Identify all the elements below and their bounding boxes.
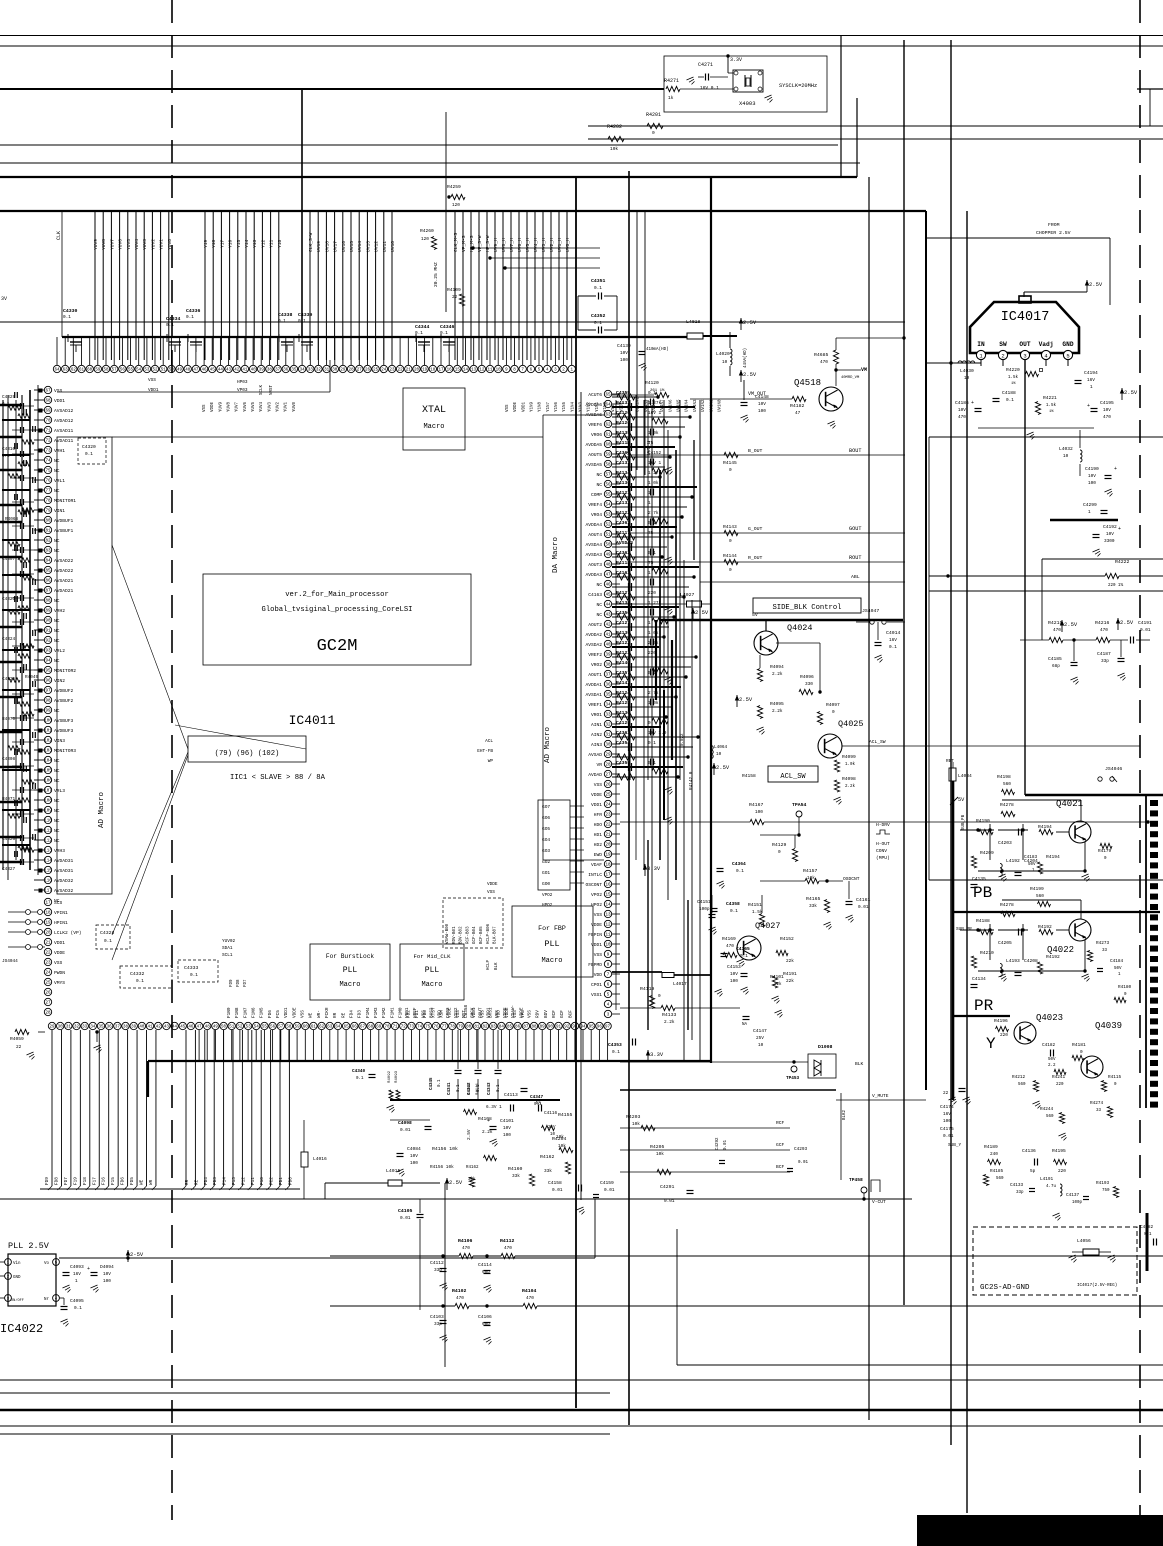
svg-text:2.5V: 2.5V [1124,389,1138,396]
bottom frame line 3 thick [0,1409,1163,1411]
svg-text:Y1N5: Y1N5 [563,401,567,412]
svg-text:VDD1: VDD1 [284,1007,289,1018]
svg-text:WE: WE [140,1179,145,1185]
svg-text:VSS: VSS [301,1010,306,1018]
IC IC4011 left pin column lower [44,898,51,905]
svg-text:FD1: FD1 [279,1177,284,1185]
svg-text:VSS: VSS [203,404,207,412]
svg-text:Y10: Y10 [277,239,283,248]
svg-text:R4181: R4181 [1072,1042,1086,1048]
svg-text:56: 56 [605,484,611,488]
svg-text:BDV: BDV [544,1010,549,1018]
svg-text:R4126: R4126 [616,420,630,426]
dashed vertical margin line right [1139,0,1141,1515]
dashed box C4320 [78,438,106,464]
svg-text:VIN3: VIN3 [54,738,65,744]
bottom filter wires [330,1255,459,1257]
svg-text:C4161: C4161 [856,897,871,903]
svg-text:18: 18 [430,369,436,373]
svg-text:1.0k: 1.0k [845,762,856,767]
svg-text:RCF: RCF [552,1010,557,1018]
svg-text:0.1: 0.1 [63,315,71,320]
svg-text:40: 40 [251,369,257,373]
svg-text:AVDAD: AVDAD [588,772,602,778]
svg-text:25: 25 [605,794,611,798]
svg-text:HREF: HREF [413,1007,418,1018]
svg-text:C4292: C4292 [716,1137,720,1150]
svg-text:YUV4: YUV4 [134,239,140,250]
svg-text:C4363: C4363 [616,730,630,736]
DA strip vertical rails [615,400,617,1010]
svg-text:0: 0 [729,468,732,473]
svg-text:VDD1: VDD1 [405,1007,410,1018]
svg-text:C4293: C4293 [794,1147,808,1152]
svg-text:25: 25 [45,982,51,986]
svg-text:Y1N9: Y1N9 [531,401,535,412]
left column extra thick bars [0,404,22,406]
wire vertical x841 [840,36,842,178]
svg-text:81: 81 [45,530,51,534]
svg-text:48: 48 [205,1026,211,1030]
svg-text:R4271: R4271 [664,78,679,84]
svg-text:NC: NC [596,602,602,608]
svg-text:88: 88 [532,1026,538,1030]
svg-text:C4153: C4153 [727,964,741,970]
svg-text:43: 43 [164,1026,170,1030]
svg-text:C4116: C4116 [544,1111,558,1116]
svg-text:BCF-B05: BCF-B05 [480,926,484,944]
svg-text:FD8: FD8 [54,1177,59,1185]
svg-text:10: 10 [605,944,611,948]
svg-text:R4137: R4137 [616,400,630,406]
svg-text:73: 73 [45,450,51,454]
svg-text:C4134: C4134 [972,976,986,982]
svg-text:RCF: RCF [776,1120,785,1126]
svg-text:UV11: UV11 [382,241,388,252]
svg-text:Macro: Macro [421,981,442,989]
svg-text:YUV3: YUV3 [268,401,272,412]
svg-text:81: 81 [474,1026,480,1030]
svg-text:42: 42 [156,1026,162,1030]
svg-text:B_OUT: B_OUT [748,448,763,454]
svg-text:44: 44 [218,369,224,373]
svg-text:102: 102 [44,740,52,744]
svg-text:470: 470 [1103,415,1111,420]
svg-text:UV3_H: UV3_H [541,238,547,252]
svg-text:PLL: PLL [343,966,358,975]
svg-text:VDD1: VDD1 [54,398,65,404]
svg-text:2.7k: 2.7k [648,691,659,696]
svg-text:VRH1: VRH1 [54,448,65,454]
regulator IC4022 box [8,1254,56,1306]
svg-text:VDD1: VDD1 [487,1007,492,1018]
svg-text:0.1: 0.1 [889,645,897,650]
svg-text:3.3V: 3.3V [650,1051,664,1058]
svg-text:62: 62 [605,424,611,428]
svg-text:C4093: C4093 [70,1264,84,1270]
svg-text:YUV6: YUV6 [118,239,124,250]
svg-text:25: 25 [373,369,379,373]
svg-text:HP03: HP03 [237,380,248,385]
svg-text:49: 49 [177,369,183,373]
svg-text:R4193: R4193 [1096,1181,1110,1186]
svg-text:NC: NC [596,582,602,588]
bottom fan group1 wires FD9..WR [51,1030,53,1186]
thick rail under caps [390,1099,560,1101]
svg-text:VDD1: VDD1 [591,802,602,808]
svg-text:22: 22 [605,824,611,828]
svg-text:0: 0 [658,994,661,999]
svg-text:F13: F13 [232,1177,237,1185]
svg-text:AOUT5: AOUT5 [588,452,602,458]
svg-text:10V: 10V [103,1272,111,1277]
svg-text:R4158: R4158 [742,773,756,779]
wire horizontal bus y163 [0,162,860,164]
svg-text:470: 470 [462,1246,470,1251]
top fan CLK_M-S..UV2_H [454,211,456,360]
svg-text:59: 59 [605,454,611,458]
svg-text:R4241: R4241 [1052,1075,1066,1080]
svg-text:14: 14 [463,369,469,373]
svg-text:10k: 10k [656,1152,664,1157]
svg-text:Q4023: Q4023 [1036,1013,1063,1023]
svg-text:100: 100 [503,1133,511,1138]
PLL output wire [59,1257,595,1259]
svg-text:VSS: VSS [528,1010,533,1018]
svg-text:FD7: FD7 [244,979,248,987]
svg-text:Y19: Y19 [203,239,209,248]
svg-text:R4101: R4101 [468,1082,472,1095]
svg-text:Global_tvsiginal_processing_Co: Global_tvsiginal_processing_CoreLSI [262,606,413,614]
svg-text:VDD1: VDD1 [148,388,159,393]
svg-text:R4118: R4118 [616,560,630,566]
svg-text:37: 37 [605,674,611,678]
svg-text:10: 10 [1063,454,1069,459]
svg-text:45: 45 [605,594,611,598]
svg-text:FROM: FROM [1048,222,1060,228]
wire vertical x904 [903,40,905,1305]
svg-text:Y: Y [986,1035,996,1053]
svg-text:R4121: R4121 [616,490,630,496]
svg-text:CLK1N2: CLK1N2 [637,396,641,412]
svg-text:RDV-B01: RDV-B01 [453,926,457,944]
svg-text:INTLC: INTLC [588,872,602,878]
svg-text:34: 34 [605,704,611,708]
svg-text:R4156 10k: R4156 10k [430,1165,454,1170]
svg-text:Y1N4: Y1N4 [571,401,575,412]
svg-text:AVSDA5: AVSDA5 [585,462,602,468]
svg-text:41: 41 [148,1026,154,1030]
svg-text:ACL: ACL [485,739,493,744]
svg-text:2.2: 2.2 [1048,1064,1056,1068]
svg-text:C4195: C4195 [1100,400,1114,406]
svg-text:3.3V: 3.3V [647,865,661,872]
bottom frame line 4 [0,1425,1163,1427]
svg-text:C4151: C4151 [697,899,711,905]
svg-text:41: 41 [605,634,611,638]
svg-text:0.01: 0.01 [1140,628,1151,633]
svg-text:38: 38 [605,664,611,668]
svg-text:UV6_H: UV6_H [517,238,523,252]
svg-text:112: 112 [44,840,52,844]
svg-text:C4101: C4101 [500,1118,514,1124]
svg-text:77: 77 [45,490,51,494]
svg-text:YUV5: YUV5 [252,401,256,412]
svg-text:R4122: R4122 [616,640,630,646]
svg-text:42: 42 [234,369,240,373]
svg-text:VREF2: VREF2 [588,652,602,658]
svg-text:22: 22 [943,1091,949,1096]
svg-text:UV2_H: UV2_H [549,238,555,252]
svg-text:FBPIN: FBPIN [588,932,602,938]
svg-text:FBPMD: FBPMD [588,962,602,968]
svg-text:41: 41 [242,369,248,373]
left column extra caps [14,392,16,398]
svg-text:UV5_H: UV5_H [525,238,531,252]
svg-text:TP458: TP458 [849,1177,863,1183]
svg-text:25V: 25V [548,1126,556,1130]
svg-text:HFR: HFR [594,812,603,818]
svg-text:YUV8: YUV8 [101,239,107,250]
svg-text:UV1N6: UV1N6 [669,399,673,412]
svg-text:R4130: R4130 [616,710,630,716]
svg-text:91: 91 [556,1026,562,1030]
svg-text:HCLP-B06: HCLP-B06 [487,923,491,944]
svg-text:Y17: Y17 [219,239,225,248]
AD Macro box left [57,437,112,894]
svg-text:66: 66 [352,1026,358,1030]
svg-text:L4015: L4015 [386,1168,401,1174]
svg-text:R4120: R4120 [645,380,659,386]
svg-text:33: 33 [605,714,611,718]
svg-text:86: 86 [515,1026,521,1030]
svg-text:15: 15 [605,894,611,898]
wires joining DA rows [629,400,631,780]
svg-text:67: 67 [45,390,51,394]
wire vertical x857 [856,98,858,177]
svg-text:70: 70 [45,420,51,424]
svg-text:AVDDA3: AVDDA3 [585,572,602,578]
svg-text:VSS: VSS [495,1010,500,1018]
svg-text:1.27k: 1.27k [648,401,662,406]
svg-text:GOUT: GOUT [849,526,861,532]
GC2M version box [203,574,471,665]
svg-text:21: 21 [406,369,412,373]
svg-text:CLK: CLK [56,231,62,240]
svg-text:48: 48 [185,369,191,373]
svg-text:YUV9: YUV9 [93,239,99,250]
svg-text:JS4046: JS4046 [1105,766,1122,772]
IC4011 inner top label row [57,391,330,393]
svg-text:R4278: R4278 [1000,902,1014,908]
svg-text:GCF: GCF [560,1010,565,1018]
svg-text:C4139: C4139 [617,343,631,349]
svg-text:20: 20 [605,844,611,848]
svg-text:0: 0 [729,568,732,573]
BOUT line [630,454,905,456]
svg-text:C4320: C4320 [82,444,96,450]
svg-text:SCS: SCS [54,900,63,906]
svg-text:35: 35 [99,1026,105,1030]
top fan CLK_S-W UV19-UV10 [309,211,311,360]
svg-text:24: 24 [381,369,387,373]
svg-text:F1M3: F1M3 [374,1007,379,1018]
svg-text:59: 59 [95,369,101,373]
svg-text:73: 73 [409,1026,415,1030]
svg-text:R4259: R4259 [447,184,461,190]
svg-text:2.5V: 2.5V [743,319,757,326]
svg-text:78: 78 [45,500,51,504]
svg-text:87: 87 [45,590,51,594]
svg-text:470: 470 [726,944,734,949]
svg-text:99: 99 [45,710,51,714]
svg-text:2.5V: 2.5V [716,764,730,771]
svg-text:16: 16 [447,369,453,373]
svg-text:SUB_PR: SUB_PR [956,927,972,932]
left column pads [39,389,43,393]
svg-text:Q4027: Q4027 [755,921,781,931]
svg-text:R4199: R4199 [1030,886,1044,892]
svg-text:90: 90 [548,1026,554,1030]
svg-text:85: 85 [45,570,51,574]
svg-text:410mA(HD): 410mA(HD) [646,347,669,352]
svg-text:13: 13 [605,914,611,918]
svg-text:UV1N0: UV1N0 [718,399,722,412]
svg-text:R4145: R4145 [723,460,737,466]
svg-text:Y1N0: Y1N0 [604,401,608,412]
svg-text:X4003: X4003 [739,100,756,107]
svg-text:UV14: UV14 [357,241,363,252]
svg-text:YUV0: YUV0 [167,239,173,250]
svg-text:F1N6: F1N6 [252,1007,257,1018]
svg-text:C4359: C4359 [616,760,630,766]
svg-text:C4129: C4129 [616,720,630,726]
svg-text:Q4025: Q4025 [838,719,864,729]
svg-text:DA Macro: DA Macro [552,537,560,574]
svg-text:AVSDA3: AVSDA3 [616,540,633,546]
svg-text:L4192: L4192 [1006,858,1020,864]
wire vertical x581 companion [580,392,582,1200]
svg-text:VDAF: VDAF [591,862,602,868]
svg-text:R4109: R4109 [447,287,461,293]
svg-text:0.01: 0.01 [724,1139,728,1150]
svg-text:92: 92 [564,1026,570,1030]
svg-text:95: 95 [589,1026,595,1030]
svg-text:69: 69 [376,1026,382,1030]
svg-text:2.5V: 2.5V [1064,621,1078,628]
svg-text:560: 560 [1018,1083,1026,1087]
svg-text:750: 750 [1102,1189,1110,1193]
svg-text:28: 28 [349,369,355,373]
svg-text:RE: RE [194,1179,199,1185]
svg-text:ABL: ABL [851,574,860,580]
bottom long rail y1199 [0,1198,912,1200]
svg-text:For BurstLock: For BurstLock [326,953,375,960]
svg-text:1: 1 [1118,973,1121,977]
dashed boxes C4332 C4333 [120,966,172,988]
svg-text:0.01: 0.01 [943,1134,954,1139]
svg-text:R4139: R4139 [616,630,630,636]
wire y89 right stub [1137,88,1163,90]
svg-text:220: 220 [1000,1033,1008,1038]
svg-text:VRL3: VRL3 [54,788,65,794]
svg-text:C4352: C4352 [591,313,606,319]
svg-text:Y1N6: Y1N6 [555,401,559,412]
svg-text:111: 111 [44,830,52,834]
svg-text:L4016: L4016 [313,1156,327,1162]
svg-text:43: 43 [605,614,611,618]
svg-text:76: 76 [45,480,51,484]
svg-text:GCF: GCF [776,1142,785,1148]
svg-text:10V: 10V [758,402,766,407]
svg-text:R4203: R4203 [626,1114,641,1120]
svg-text:0.01: 0.01 [664,1199,675,1204]
svg-text:560: 560 [1046,1115,1054,1119]
svg-text:R4151: R4151 [748,902,762,908]
svg-text:22k: 22k [786,959,794,964]
svg-text:R4099: R4099 [842,754,856,760]
svg-text:L4018: L4018 [686,319,701,325]
svg-text:2.7k: 2.7k [648,641,659,646]
svg-text:ACL_SW: ACL_SW [780,773,806,781]
svg-text:CPO2: CPO2 [446,1007,451,1018]
svg-text:0: 0 [832,710,835,715]
svg-text:0.01: 0.01 [552,1188,563,1193]
svg-text:PLL 2.5V: PLL 2.5V [8,1241,50,1251]
svg-text:27: 27 [45,1002,51,1006]
svg-text:71: 71 [45,430,51,434]
svg-text:84: 84 [45,560,51,564]
svg-text:74: 74 [417,1026,423,1030]
svg-text:113: 113 [44,850,52,854]
svg-text:Q4039: Q4039 [1095,1021,1122,1031]
svg-text:22: 22 [45,952,51,956]
svg-text:10: 10 [758,1043,764,1048]
dashed box C4328 [96,925,130,949]
svg-text:116: 116 [44,880,52,884]
svg-text:R4260: R4260 [420,228,434,234]
svg-text:HD2: HD2 [594,842,603,848]
svg-text:Vo: Vo [44,1262,50,1266]
svg-text:R4101: R4101 [770,974,784,980]
svg-text:GO7: GO7 [542,804,550,810]
svg-text:C4190: C4190 [1085,466,1099,472]
svg-text:C4345: C4345 [430,1077,434,1090]
svg-text:98: 98 [45,700,51,704]
svg-text:220: 220 [1056,1083,1064,1087]
svg-text:52: 52 [237,1026,243,1030]
svg-text:19: 19 [422,369,428,373]
svg-text:EWD: EWD [594,852,603,858]
svg-text:21: 21 [605,834,611,838]
svg-text:C4133: C4133 [1010,1183,1024,1188]
svg-text:75: 75 [45,470,51,474]
svg-text:0.1: 0.1 [594,286,602,291]
svg-text:VDD: VDD [594,972,603,978]
svg-text:0: 0 [1080,1050,1083,1055]
svg-text:R4191: R4191 [783,971,797,977]
svg-text:46: 46 [188,1026,194,1030]
svg-text:Q4022: Q4022 [1047,945,1074,955]
svg-text:C4127: C4127 [616,620,630,626]
svg-text:10: 10 [716,752,722,757]
svg-text:49: 49 [605,554,611,558]
svg-text:47: 47 [795,411,801,416]
svg-text:39: 39 [259,369,265,373]
svg-text:560: 560 [1003,782,1011,787]
svg-text:72: 72 [401,1026,407,1030]
svg-text:59: 59 [295,1026,301,1030]
